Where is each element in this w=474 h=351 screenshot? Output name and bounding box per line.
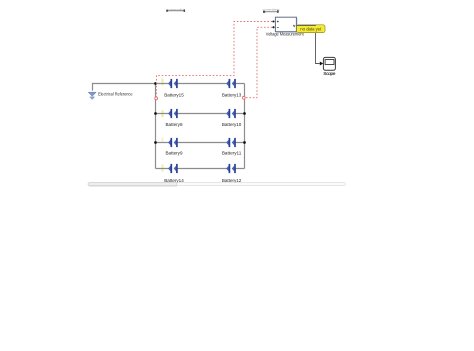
battery Battery12 (226, 164, 236, 173)
wire row 4 (156, 168, 245, 170)
battery Battery15 (168, 79, 178, 88)
voltage measurement block U1 (275, 17, 297, 32)
battery Battery8 (168, 109, 178, 118)
scrollbar thumb shadow (89, 185, 177, 188)
probe leader wire to - port (245, 27, 272, 97)
junction left row 3 (154, 141, 157, 144)
svg-text:Battery11: Battery11 (222, 151, 242, 156)
wire v output horizontal (296, 24, 316, 26)
junction left row 1 (154, 82, 157, 85)
svg-text:Battery8: Battery8 (166, 122, 184, 127)
junction left row 2 (154, 112, 157, 115)
probe circle on left bus (155, 97, 158, 100)
svg-text:Battery12: Battery12 (222, 178, 242, 183)
svg-text:Battery14: Battery14 (164, 178, 184, 183)
wire v output down to scope (316, 33, 320, 64)
junction right row 3 (243, 141, 246, 144)
port value display bubble no data yet (297, 25, 325, 33)
scope block (323, 57, 335, 70)
probe leader wire to + port (156, 22, 272, 97)
logging badge row 3 (161, 137, 163, 142)
port + of voltage measurement (272, 20, 274, 22)
battery Battery11 (226, 138, 236, 147)
svg-text:no data yet: no data yet (300, 27, 322, 32)
left bus wire (155, 84, 157, 169)
wire row 2 (156, 113, 245, 115)
electrical reference symbol (88, 92, 96, 99)
port - of voltage measurement (272, 26, 274, 28)
wire row 3 (156, 142, 245, 144)
svg-text:Scope: Scope (323, 71, 335, 76)
svg-text:Battery10: Battery10 (222, 122, 242, 127)
junction right row 2 (243, 112, 246, 115)
logging badge row 4 (161, 164, 163, 171)
scrollbar track (88, 183, 346, 186)
annotation lower row left (166, 10, 185, 12)
wire electrical reference to left bus (93, 84, 156, 91)
svg-text:Battery13: Battery13 (222, 93, 242, 98)
right bus wire (244, 84, 246, 169)
probe circle on right bus (242, 96, 245, 99)
scrollbar thumb (88, 183, 177, 186)
battery Battery13 (226, 79, 236, 88)
battery Battery10 (226, 109, 236, 118)
battery Battery9 (168, 138, 178, 147)
svg-text:Battery9: Battery9 (166, 151, 184, 156)
arrowhead into scope (320, 62, 323, 66)
svg-text:Battery15: Battery15 (164, 93, 184, 98)
svg-text:Electrical Reference: Electrical Reference (98, 92, 133, 97)
logging badge row 2 (161, 110, 163, 117)
annotation lower row right (263, 10, 279, 13)
battery Battery14 (168, 164, 178, 173)
wire row 1 (156, 83, 245, 85)
logging badge row 1 (161, 79, 163, 86)
